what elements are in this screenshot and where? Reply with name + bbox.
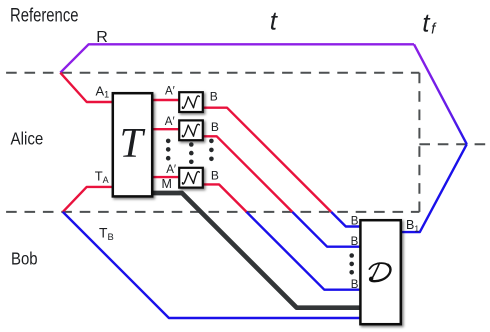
wire R to tf (gradient purple-blue descending) (414, 44, 467, 144)
glyph D (script) (368, 263, 392, 281)
svg-text:Reference: Reference (10, 6, 79, 27)
wire T to N3 (red A') (152, 176, 179, 178)
svg-text:B: B (351, 216, 359, 228)
box N3 (channel) (179, 168, 203, 188)
svg-text:Bob: Bob (11, 248, 38, 268)
wire N2 to D input B (203, 136, 292, 212)
wire T to N1 (red A') (152, 99, 179, 101)
wire TA (red, into T) (63, 187, 114, 212)
svg-text:T: T (120, 121, 146, 167)
box N1 (channel) (179, 92, 203, 112)
ellipsis dots at D inputs (349, 253, 354, 274)
dashed boundary right vertical (418, 73, 420, 212)
wire N3 to D input B (203, 184, 247, 212)
svg-text:A′: A′ (166, 164, 176, 176)
ellipsis dots between N2 and N3 col1 (166, 139, 171, 161)
glyph N3 (182, 172, 199, 184)
svg-text:B: B (211, 168, 219, 182)
svg-text:B: B (210, 90, 218, 104)
dashed boundary top (Reference/Alice) (0, 72, 419, 74)
wire R (purple, reference system) (60, 44, 414, 72)
svg-text:A′: A′ (165, 85, 175, 97)
svg-text:M: M (162, 177, 172, 191)
wire T to N2 (red A') (152, 128, 179, 130)
ellipsis dots col3 (209, 139, 214, 162)
dashed boundary bottom (Alice/Bob) (0, 211, 419, 213)
glyph N1 (182, 96, 199, 108)
svg-text:B: B (351, 279, 359, 291)
wire TB (blue, Bob side into D) (63, 212, 360, 318)
dashed stub right of convergence (419, 143, 490, 145)
svg-text:R: R (96, 29, 108, 46)
wire N1 to D input B (red then blue after boundary) (203, 108, 331, 212)
glyph N2 (182, 124, 199, 136)
svg-text:B: B (211, 120, 219, 134)
wire A1 (red, into T) (60, 73, 114, 102)
wire B1 output of D to convergence (blue) (399, 144, 467, 232)
svg-text:A′: A′ (165, 116, 175, 128)
box D (decoder) (360, 220, 400, 324)
box T (encoder) (113, 93, 152, 196)
svg-text:Alice: Alice (11, 129, 44, 149)
box N2 (channel) (179, 120, 203, 140)
ellipsis dots col2 (189, 142, 194, 164)
wire M (thick dark classical message) (152, 193, 360, 308)
svg-text:B: B (351, 236, 359, 248)
